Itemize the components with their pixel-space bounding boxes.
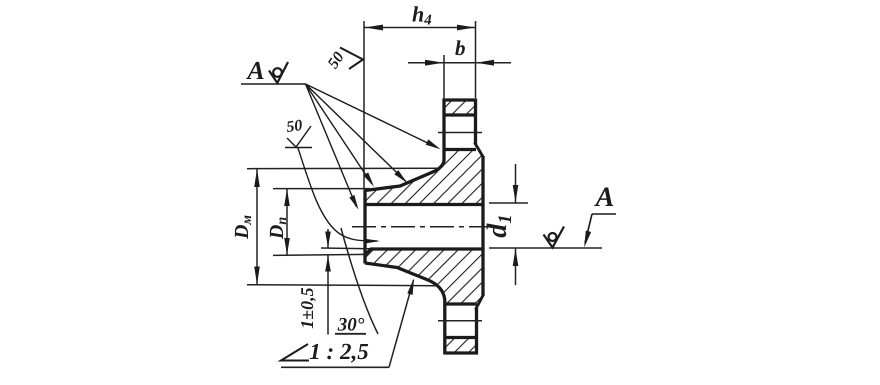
svg-text:1±0,5: 1±0,5 <box>297 287 317 328</box>
lower bolt hole axis <box>438 320 482 322</box>
not-machined symbol on surface line (right) <box>544 227 565 248</box>
svg-text:30°: 30° <box>337 315 365 336</box>
outline: hub upper profile (neck + taper + fillet + disc left face) <box>365 99 444 191</box>
1±0,5 dimension line with outside arrows <box>327 229 329 248</box>
b left arrowhead <box>425 60 444 66</box>
svg-text:1 : 2,5: 1 : 2,5 <box>309 339 368 364</box>
svg-text:A: A <box>594 182 615 213</box>
d1 dimension: top extension line <box>489 202 528 204</box>
outline: disc right face lower <box>475 308 478 355</box>
upper bolt hole axis <box>438 132 482 134</box>
Dm dimension: top extension line <box>247 167 441 170</box>
outline: raised face chamfer lower <box>476 295 484 310</box>
30 degree chamfer angle: slanted side <box>341 228 378 334</box>
fan leader to taper surface <box>306 84 407 182</box>
fan arrowhead 2 <box>394 170 407 183</box>
taper label underline <box>281 366 389 368</box>
view A arrow (right side) <box>585 214 616 243</box>
A leader <box>585 214 592 243</box>
30 degree underline <box>335 333 366 335</box>
fan leader to hub end corner <box>306 84 357 207</box>
outline: disc OD top edge <box>443 98 478 101</box>
Dn dimension line <box>286 189 288 256</box>
Dn bottom arrowhead <box>284 238 290 255</box>
outline: lower bolt hole bottom edge <box>444 336 477 339</box>
taper leader line to hub surface <box>389 280 414 367</box>
1±0,5 lower arrowhead (points up) <box>325 256 331 272</box>
taper leader arrowhead <box>407 278 414 295</box>
h4 left arrowhead <box>365 25 384 31</box>
roughness mark 50 for bore with curved leader <box>285 126 377 241</box>
outline: lower bolt hole top edge <box>444 302 477 305</box>
fan leader to disc left face <box>306 84 438 148</box>
svg-text:Dп: Dп <box>266 217 290 240</box>
outline: bore bottom line with weld step chamfer <box>366 249 484 255</box>
outline: disc OD bottom edge <box>444 351 479 354</box>
fan arrowhead 1 <box>426 139 441 149</box>
b right arrowhead <box>476 60 494 66</box>
Dn dimension: bottom extension line (continues to weld step) <box>273 254 367 255</box>
svg-text:d1: d1 <box>482 214 516 238</box>
bore leader arrowhead <box>364 239 381 244</box>
Dn top arrowhead <box>284 189 290 206</box>
Dm dimension line <box>256 169 258 285</box>
Dn dimension: top extension line <box>273 188 370 190</box>
b dimension: left extension line <box>443 55 445 99</box>
outline: hub end face (left) <box>363 190 366 264</box>
surface A leader group (fan of arrows) <box>241 84 437 207</box>
outline: upper bolt hole top edge <box>443 113 476 116</box>
svg-text:50: 50 <box>325 49 348 72</box>
outline: hub lower profile (neck + taper + fillet + disc left face) <box>365 263 445 354</box>
A shelf <box>592 213 616 215</box>
d1 dimension line bottom part <box>515 248 517 285</box>
fan arrowhead 3 <box>363 172 374 186</box>
svg-text:A: A <box>245 56 264 85</box>
view A arrowhead <box>584 231 591 248</box>
outline: raised face right edge <box>481 156 484 296</box>
svg-text:Dм: Dм <box>231 215 255 240</box>
bolt hole lower (white void) <box>443 305 479 337</box>
not-machined symbol beside A (check with circle) <box>269 62 288 83</box>
svg-text:h4: h4 <box>412 2 432 29</box>
flange lower body hatched section <box>365 249 483 353</box>
flange upper body hatched section <box>365 100 483 204</box>
d1 bottom arrowhead <box>513 249 519 267</box>
taper symbol <box>281 344 309 361</box>
h4 dimension line <box>364 27 476 29</box>
b dimension line with outside arrows <box>408 62 511 64</box>
h4 dimension: left extension line <box>363 21 365 189</box>
Dm top arrowhead <box>254 169 260 187</box>
d1 dimension line top part <box>515 164 517 203</box>
outline: upper bolt hole bottom edge <box>443 148 476 151</box>
1±0,5 lower line tail <box>327 255 329 335</box>
h4 dimension: right extension line <box>475 21 477 98</box>
svg-text:b: b <box>455 36 466 60</box>
fan leader to neck surface <box>306 84 372 184</box>
1±0,5 dimension: upper extension line <box>321 247 370 250</box>
bolt hole upper (white void) <box>442 116 478 149</box>
center axis line (dash-dot) <box>352 226 498 228</box>
Dm dimension: bottom extension line <box>247 285 437 286</box>
d1 dimension: bottom extension line (long, carries A mark) <box>489 247 602 249</box>
fan arrowhead 4 <box>349 195 358 210</box>
Dm bottom arrowhead <box>254 267 260 285</box>
outline: bore top line <box>364 203 483 206</box>
A label underline/shelf <box>241 83 306 85</box>
h4 right arrowhead <box>457 25 475 31</box>
roughness mark 50 on hub end face extension <box>325 48 363 72</box>
d1 top arrowhead <box>513 185 519 203</box>
outline: raised face chamfer upper <box>475 143 484 158</box>
outline: disc right face upper <box>474 99 477 145</box>
1±0,5 upper arrowhead (points down) <box>325 232 331 248</box>
svg-text:50: 50 <box>285 117 303 136</box>
